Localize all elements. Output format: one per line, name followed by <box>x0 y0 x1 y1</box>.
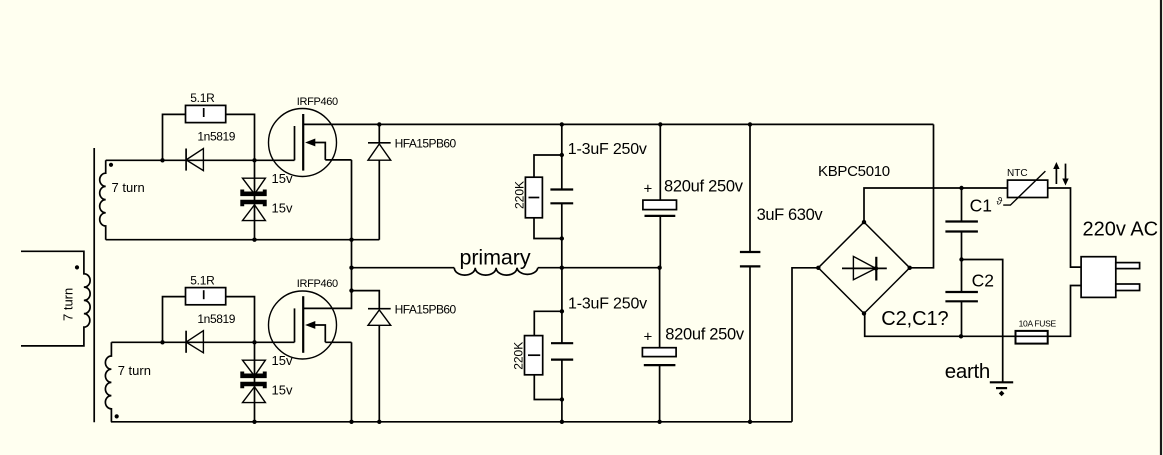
svg-text:5.1R: 5.1R <box>190 273 215 287</box>
junction dot lower HFA step <box>349 288 353 292</box>
svg-text:HFA15PB60: HFA15PB60 <box>395 303 457 317</box>
svg-text:ϑ: ϑ <box>997 197 1003 208</box>
svg-text:1n5819: 1n5819 <box>197 312 235 326</box>
svg-text:15v: 15v <box>272 383 293 398</box>
wire: bridge top corner to NTC <box>864 188 1008 222</box>
inductor primary <box>454 268 538 275</box>
svg-text:5.1R: 5.1R <box>190 91 215 105</box>
wire: mid rail right segment <box>538 267 660 269</box>
wire: bridge left corner to bottom rail <box>792 268 818 422</box>
svg-text:1-3uF 250v: 1-3uF 250v <box>568 141 647 158</box>
wire: step to lower HFA diode <box>352 291 380 309</box>
svg-text:primary: primary <box>460 245 531 269</box>
right border line <box>1160 0 1162 455</box>
svg-text:KBPC5010: KBPC5010 <box>818 163 890 180</box>
svg-text:7 turn: 7 turn <box>112 180 145 195</box>
svg-text:HFA15PB60: HFA15PB60 <box>395 137 457 151</box>
polarity dot top winding <box>109 163 113 167</box>
thermistor RT1 NTC <box>997 171 1048 207</box>
svg-text:220K: 220K <box>512 181 526 209</box>
capacitor C6 820uf 250v (bottom electrolytic) <box>642 268 676 422</box>
svg-text:820uf 250v: 820uf 250v <box>664 177 744 195</box>
svg-text:C2: C2 <box>972 271 994 291</box>
svg-text:+: + <box>644 329 653 346</box>
transformer left winding L1 (7 turn) <box>21 251 90 346</box>
svg-text:15v: 15v <box>272 201 293 216</box>
svg-text:1n5819: 1n5819 <box>197 130 235 144</box>
resistor R2 5.1R (bottom) <box>163 288 255 343</box>
wire: top rail (drain of Q1) <box>303 123 933 125</box>
inrush arrow up <box>1053 162 1059 184</box>
svg-text:earth: earth <box>945 360 990 383</box>
capacitor C4 1-3uF 250v (bottom) <box>551 268 573 422</box>
junction dots 1-3uF bottom branch <box>560 309 564 402</box>
diode D3 1n5819 (bottom) <box>186 331 203 353</box>
mains plug 220v AC <box>1081 257 1140 298</box>
wire: half-bridge vertical <box>303 160 351 309</box>
svg-text:NTC: NTC <box>1007 168 1028 179</box>
zener pair ZD3/ZD4 15v (bottom) <box>240 342 266 422</box>
junction dots bridge corners <box>816 220 912 316</box>
junction dots mid rail <box>349 266 662 270</box>
svg-text:820uf 250v: 820uf 250v <box>665 325 745 343</box>
wire: bridge bottom corner to fuse <box>865 314 1016 337</box>
MOSFET Q2 IRFP460 (bottom) <box>269 291 352 359</box>
svg-text:C1: C1 <box>970 195 992 215</box>
wire: top cell bottom wire <box>106 239 380 241</box>
fuse F1 10A FUSE <box>1016 331 1048 344</box>
svg-text:C2,C1?: C2,C1? <box>881 308 948 330</box>
capacitor C2 <box>945 260 978 337</box>
transformer core <box>93 148 95 422</box>
zener pair ZD1/ZD2 15v (top) <box>240 160 266 239</box>
junction dot fuse wire <box>959 334 963 338</box>
svg-text:10A FUSE: 10A FUSE <box>1019 318 1057 328</box>
wire: top gate wire <box>106 159 295 161</box>
svg-text:15v: 15v <box>272 353 293 368</box>
wire: plug bottom to fuse <box>1048 286 1081 337</box>
capacitor C1 <box>945 188 978 260</box>
junction dots bottom gate wire <box>160 340 256 344</box>
svg-text:7 turn: 7 turn <box>118 363 151 378</box>
svg-text:IRFP460: IRFP460 <box>297 96 338 108</box>
junction dot C1 C2 midpoint <box>959 257 963 261</box>
capacitor C5 820uf 250v (top electrolytic) <box>643 124 677 267</box>
junction dots top gate wire <box>160 158 256 162</box>
svg-text:15v: 15v <box>272 171 293 186</box>
svg-text:1-3uF 250v: 1-3uF 250v <box>568 295 647 312</box>
resistor R3 220K (top) <box>525 155 561 239</box>
svg-text:IRFP460: IRFP460 <box>297 278 338 290</box>
junction dots top cell bottom wire <box>252 238 353 242</box>
junction dots top rail <box>377 122 752 126</box>
inrush arrow down <box>1062 164 1068 186</box>
transformer bottom winding L3 (7 turn) <box>105 342 111 422</box>
wire: bottom gate wire <box>111 341 294 343</box>
wire: bridge right corner to top rail <box>910 124 934 267</box>
polarity dot left winding <box>75 265 79 269</box>
polarity dot bottom winding <box>115 414 119 418</box>
wire: NTC to plug top <box>1048 188 1081 267</box>
svg-text:220v AC: 220v AC <box>1083 218 1159 240</box>
MOSFET Q1 IRFP460 (top) <box>269 109 352 177</box>
diode D4 HFA15PB60 (bottom) <box>368 309 391 422</box>
diode D2 HFA15PB60 (top) <box>368 124 391 239</box>
wire: lower source vertical <box>351 342 353 422</box>
earth ground symbol <box>990 382 1013 396</box>
diode D1 1n5819 (top) <box>186 149 203 171</box>
svg-text:7 turn: 7 turn <box>61 288 76 321</box>
junction dots 1-3uF top branch <box>560 153 564 241</box>
svg-text:+: + <box>644 181 653 198</box>
capacitor C7 3uF 630v <box>740 124 761 421</box>
transformer top winding L2 (7 turn) <box>100 160 106 239</box>
wire: mid rail left segment <box>352 267 455 269</box>
wire: C1/C2 midpoint to earth <box>962 260 1003 382</box>
bridge rectifier BR1 KBPC5010 <box>818 222 909 313</box>
capacitor C3 1-3uF 250v (top) <box>550 124 573 267</box>
svg-text:3uF 630v: 3uF 630v <box>757 206 824 224</box>
junction dots bottom rail <box>252 420 752 424</box>
resistor R1 5.1R (top) <box>163 105 255 160</box>
resistor R4 220K (bottom) <box>525 311 562 399</box>
svg-text:220K: 220K <box>512 342 526 370</box>
wire: bottom rail <box>111 421 792 423</box>
junction dot NTC wire <box>959 186 963 190</box>
